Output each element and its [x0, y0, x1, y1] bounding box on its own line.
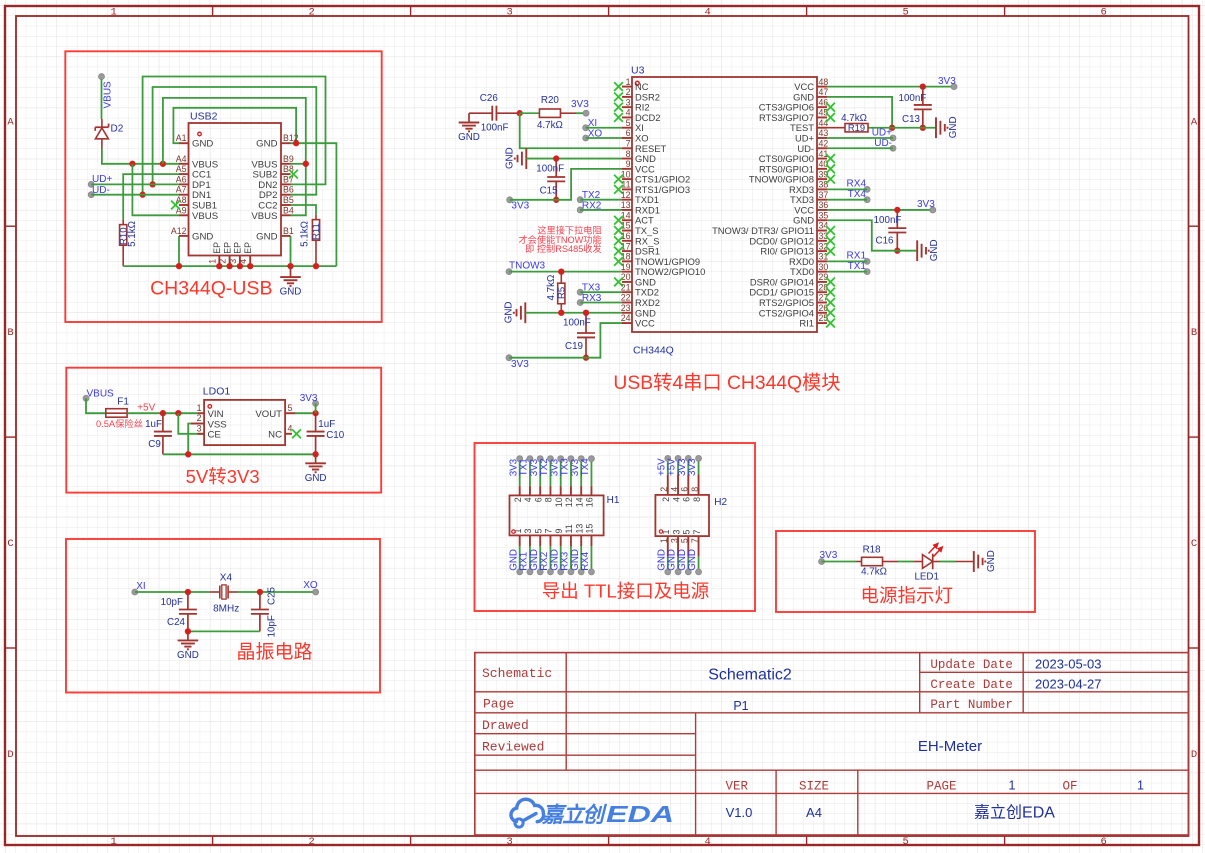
svg-text:Update Date: Update Date	[930, 658, 1013, 672]
pin B4 VBUS	[281, 214, 291, 216]
pin 8 GND	[622, 158, 632, 160]
wire R20 junction to RESET pin 7	[520, 113, 622, 148]
svg-text:1uF: 1uF	[318, 419, 335, 430]
section box 5V-3V3	[66, 368, 381, 493]
svg-text:C: C	[1191, 538, 1197, 550]
net label 3V3 at R20	[583, 110, 589, 116]
svg-text:C10: C10	[326, 430, 345, 441]
svg-text:LED1: LED1	[914, 572, 939, 583]
net label 3V3 at LED	[819, 559, 825, 565]
svg-text:D2: D2	[111, 124, 124, 135]
svg-text:RI0/ GPIO13: RI0/ GPIO13	[760, 246, 814, 257]
ground GND of USB section	[290, 266, 292, 277]
capacitor C15 100nF	[555, 159, 557, 177]
wire C15 to VCC pin 9	[556, 169, 622, 200]
pin 11 RTS1/GPIO3	[622, 188, 632, 190]
wire VCC pin 24 to 3V3	[509, 323, 622, 358]
pin 4 DCD2	[622, 116, 632, 118]
svg-text:VCC: VCC	[794, 204, 814, 215]
svg-text:+5V: +5V	[137, 402, 155, 413]
pin 31 RXD0	[817, 260, 827, 262]
net label VBUS	[83, 395, 89, 401]
pin 2 of H1	[519, 486, 521, 495]
svg-text:即 控制RS485收发: 即 控制RS485收发	[525, 243, 602, 254]
section box CH344Q-USB	[65, 51, 381, 322]
svg-text:TXD3: TXD3	[790, 194, 814, 205]
wire VCC pin 48 to 3V3	[827, 86, 954, 88]
pin 27 RTS2/GPIO5	[817, 301, 827, 303]
svg-text:NC: NC	[268, 430, 282, 441]
svg-text:GND: GND	[793, 91, 814, 102]
ground GND for C26	[468, 113, 470, 122]
pin B1 GND	[281, 235, 291, 237]
resistor R18 4.7k	[857, 561, 862, 563]
svg-text:24: 24	[621, 313, 631, 323]
net label 3V3 at pin 36	[930, 207, 936, 213]
svg-text:4: 4	[704, 7, 710, 19]
pin B9 VBUS	[281, 163, 291, 165]
svg-text:嘉立创: 嘉立创	[541, 803, 607, 827]
svg-text:3: 3	[626, 97, 631, 107]
svg-text:VCC: VCC	[635, 318, 655, 329]
svg-text:1: 1	[1137, 778, 1144, 792]
pin 9 of H1	[560, 535, 562, 546]
svg-text:GND: GND	[793, 215, 814, 226]
svg-text:VBUS: VBUS	[192, 211, 218, 222]
capacitor C25 10pF	[259, 592, 261, 610]
svg-text:CTS2/GPIO4: CTS2/GPIO4	[759, 307, 814, 318]
svg-text:TNOW0/GPIO8: TNOW0/GPIO8	[749, 174, 814, 185]
svg-text:21: 21	[621, 282, 631, 292]
pin 15 of H1	[590, 535, 592, 546]
svg-text:GND: GND	[256, 139, 277, 150]
ground GND at C16	[916, 240, 918, 261]
connector H1 body	[510, 495, 604, 535]
svg-text:C19: C19	[565, 341, 583, 352]
wire GND to pin 23	[525, 312, 622, 314]
svg-text:6: 6	[626, 128, 631, 138]
wire nested loop DP1-DP2	[153, 87, 317, 195]
svg-text:100nF: 100nF	[481, 123, 509, 134]
pin 33 DCD0/ GPIO12	[817, 240, 827, 242]
svg-text:Schematic: Schematic	[482, 666, 552, 681]
pin 13 of H1	[580, 535, 582, 546]
net label RX2	[577, 207, 583, 213]
svg-text:XI: XI	[136, 581, 145, 592]
svg-text:2: 2	[626, 87, 631, 97]
pin 17 DSR1	[622, 250, 632, 252]
pin 6 of H1	[539, 486, 541, 495]
pin 2 DSR2	[622, 96, 632, 98]
pin 1 marker H1	[512, 530, 515, 533]
svg-text:R11: R11	[311, 223, 322, 240]
svg-text:8: 8	[626, 149, 631, 159]
pin 20 GND	[622, 281, 632, 283]
pin A12 GND	[179, 235, 189, 237]
svg-text:31: 31	[819, 252, 829, 262]
svg-text:A5: A5	[176, 164, 187, 174]
svg-text:B9: B9	[283, 154, 294, 164]
svg-text:3V3: 3V3	[300, 393, 318, 404]
svg-text:A6: A6	[176, 174, 187, 184]
svg-text:A: A	[7, 116, 14, 128]
svg-text:DCD0/ GPIO12: DCD0/ GPIO12	[749, 235, 814, 246]
pin 6 XO	[622, 137, 632, 139]
pin 7 of H1	[549, 535, 551, 546]
net label 3V3 at C15	[507, 197, 513, 203]
net label TX2	[577, 197, 583, 203]
pin 10 CTS1/GPIO2	[622, 178, 632, 180]
pin B8 SUB2	[281, 173, 291, 175]
svg-text:4.7kΩ: 4.7kΩ	[546, 275, 557, 301]
svg-text:12: 12	[621, 190, 631, 200]
svg-text:11: 11	[564, 524, 574, 533]
wire VCC pin 36 to 3V3	[827, 209, 933, 211]
svg-text:8: 8	[544, 497, 554, 502]
pin 3 of H2	[677, 536, 679, 557]
svg-text:B5: B5	[283, 195, 294, 205]
pin B7 DN2	[281, 183, 291, 185]
svg-text:F1: F1	[117, 396, 129, 407]
svg-text:VCC: VCC	[794, 81, 814, 92]
svg-text:GND: GND	[177, 650, 199, 661]
wire CC1 to R10	[123, 174, 179, 219]
svg-text:XO: XO	[303, 580, 318, 591]
net label 3V3 at C19	[506, 355, 512, 361]
svg-text:RI1: RI1	[799, 318, 814, 329]
capacitor C26 100nF	[469, 112, 492, 114]
svg-text:3: 3	[197, 424, 202, 434]
svg-text:11: 11	[621, 180, 630, 190]
pin 13 RXD1	[622, 209, 632, 211]
svg-text:1uF: 1uF	[145, 419, 162, 430]
svg-text:3V3: 3V3	[938, 76, 956, 87]
svg-text:C15: C15	[540, 186, 559, 197]
capacitor C16 100nF	[896, 210, 898, 228]
svg-text:C9: C9	[148, 439, 161, 450]
net label RX3	[577, 300, 583, 306]
svg-text:B6: B6	[283, 185, 294, 195]
section box power LED	[776, 531, 1035, 612]
svg-text:TNOW3: TNOW3	[509, 260, 546, 271]
svg-text:5: 5	[902, 836, 908, 848]
svg-text:22: 22	[621, 293, 631, 303]
svg-text:C16: C16	[876, 236, 895, 247]
svg-text:TXD0: TXD0	[790, 266, 814, 277]
pin 24 VCC	[622, 322, 632, 324]
svg-text:GND: GND	[192, 139, 213, 150]
svg-text:GND: GND	[280, 287, 302, 298]
svg-text:5: 5	[902, 7, 908, 19]
svg-text:RTS2/GPIO5: RTS2/GPIO5	[759, 297, 814, 308]
svg-text:GND: GND	[305, 473, 327, 484]
pin 48 VCC	[817, 86, 827, 88]
net label UD-	[88, 192, 94, 198]
wire B9 VBUS to B4	[291, 163, 306, 165]
title block table	[475, 653, 1189, 835]
svg-text:RXD3: RXD3	[789, 184, 814, 195]
svg-text:38: 38	[819, 180, 829, 190]
pin 39 TNOW0/GPIO8	[817, 178, 827, 180]
svg-text:B: B	[7, 327, 13, 339]
wire LED1 to GND	[940, 561, 955, 563]
svg-text:CE: CE	[208, 430, 221, 441]
svg-text:6: 6	[1100, 836, 1106, 848]
pin 38 RXD3	[817, 188, 827, 190]
svg-text:C25: C25	[267, 586, 278, 605]
svg-text:A: A	[1191, 116, 1198, 128]
svg-text:6: 6	[682, 497, 692, 502]
svg-text:Reviewed: Reviewed	[482, 740, 544, 755]
svg-text:导出 TTL接口及电源: 导出 TTL接口及电源	[542, 581, 710, 602]
svg-text:3: 3	[669, 538, 679, 543]
wire CC2 to R11	[291, 205, 317, 214]
svg-text:100nF: 100nF	[536, 163, 564, 174]
svg-text:6: 6	[1100, 7, 1106, 19]
svg-text:23: 23	[621, 303, 631, 313]
net label XO	[313, 589, 319, 595]
pin 5 of H2	[687, 536, 689, 557]
pin 10 of H1	[560, 486, 562, 495]
svg-text:42: 42	[819, 138, 829, 148]
wire nested loop DN1-DN2	[143, 77, 326, 195]
pin 16 RX_S	[622, 240, 632, 242]
svg-text:B1: B1	[283, 226, 294, 236]
svg-text:1: 1	[626, 77, 631, 87]
pin 1 marker H2	[659, 530, 662, 533]
svg-text:3V3: 3V3	[571, 99, 589, 110]
svg-text:3: 3	[228, 259, 238, 264]
svg-text:TX4: TX4	[580, 458, 591, 477]
svg-text:4: 4	[288, 424, 293, 434]
svg-text:Schematic2: Schematic2	[708, 667, 792, 684]
svg-text:5: 5	[682, 530, 692, 535]
svg-text:TX1: TX1	[848, 261, 867, 272]
wire VBUS to F1	[86, 398, 106, 413]
svg-text:EP: EP	[212, 242, 222, 254]
svg-text:UD-: UD-	[874, 138, 892, 149]
pin 5 XI	[622, 127, 632, 129]
wire X4 to XO	[238, 591, 316, 593]
pin 3 of H1	[529, 535, 531, 546]
svg-text:EP: EP	[222, 242, 232, 254]
pin 22 RXD2	[622, 301, 632, 303]
svg-text:GND: GND	[505, 147, 516, 169]
pin 30 TXD0	[817, 271, 827, 273]
net label TX3	[577, 289, 583, 295]
wire UD+ to pin A6	[91, 183, 179, 185]
wire bottom GND bus	[123, 265, 336, 267]
pin A1 GND	[179, 142, 189, 144]
svg-text:4: 4	[626, 108, 631, 118]
svg-text:C13: C13	[902, 114, 921, 125]
wire GND to pin 8	[526, 158, 622, 160]
svg-text:A7: A7	[176, 185, 187, 195]
svg-text:6: 6	[533, 497, 543, 502]
svg-text:3: 3	[506, 836, 512, 848]
svg-text:USB2: USB2	[190, 111, 218, 123]
net label UD+	[88, 181, 94, 187]
pin 42 UD-	[817, 147, 827, 149]
pin 12 of H1	[570, 486, 572, 495]
pin 1 VIN	[197, 412, 204, 414]
svg-text:UD-: UD-	[797, 143, 814, 154]
pin 4 of H1	[529, 486, 531, 495]
pin 7 of H2	[698, 536, 700, 557]
zener diode D2	[101, 119, 103, 127]
svg-text:3: 3	[671, 530, 681, 535]
wire VBUS branch to A9	[132, 164, 179, 216]
svg-text:6: 6	[680, 487, 690, 492]
svg-text:10: 10	[554, 497, 564, 507]
svg-text:4: 4	[671, 497, 681, 502]
svg-text:3V3: 3V3	[820, 550, 838, 561]
svg-text:GND: GND	[929, 239, 940, 261]
pin 2 VSS	[191, 423, 204, 425]
svg-text:2: 2	[513, 497, 523, 502]
logo JLCEDA cloud	[511, 799, 544, 827]
svg-text:Create Date: Create Date	[930, 678, 1013, 692]
svg-text:GND: GND	[192, 231, 213, 242]
svg-text:C26: C26	[480, 93, 499, 104]
svg-text:2: 2	[197, 413, 202, 423]
svg-text:16: 16	[585, 497, 595, 507]
svg-text:100nF: 100nF	[874, 215, 902, 226]
pin 14 ACT	[622, 219, 632, 221]
regulator LDO1 body	[204, 400, 285, 445]
capacitor C10 1uF	[315, 413, 317, 431]
svg-text:DCD1/ GPIO15: DCD1/ GPIO15	[749, 287, 814, 298]
svg-text:GND: GND	[256, 231, 277, 242]
svg-text:CH344Q-USB: CH344Q-USB	[150, 278, 272, 300]
wire F1 to VIN	[127, 412, 197, 414]
pin 40 RTS0/GPIO1	[817, 168, 827, 170]
net label XI	[132, 589, 138, 595]
svg-text:Page: Page	[483, 697, 514, 712]
svg-text:VOUT: VOUT	[255, 409, 282, 420]
svg-text:4.7kΩ: 4.7kΩ	[537, 120, 563, 131]
svg-text:R5: R5	[557, 287, 568, 299]
pin 3 CE	[197, 433, 204, 435]
pin A8 no-connect X	[171, 201, 180, 210]
crystal X4 8MHz	[210, 591, 220, 593]
pin 36 VCC	[817, 209, 827, 211]
wire bottom bus of LDO section	[163, 453, 316, 455]
svg-text:2: 2	[661, 497, 671, 502]
svg-text:2: 2	[659, 487, 669, 492]
svg-text:U3: U3	[631, 65, 645, 77]
wire B12 GND to bus	[291, 143, 337, 266]
svg-text:37: 37	[819, 190, 829, 200]
svg-text:TX4: TX4	[848, 189, 867, 200]
svg-text:X4: X4	[220, 573, 233, 584]
svg-text:SIZE: SIZE	[799, 779, 829, 793]
svg-text:EP: EP	[243, 242, 253, 254]
svg-text:TEST: TEST	[790, 122, 814, 133]
svg-text:1: 1	[207, 259, 217, 264]
svg-text:VBUS: VBUS	[87, 388, 115, 399]
wire VBUS net to D2	[99, 74, 105, 80]
svg-text:2023-05-03: 2023-05-03	[1035, 657, 1102, 672]
node C26-R20 junction	[517, 110, 523, 116]
ground GND at LED	[973, 551, 975, 572]
wire VSS to bus	[188, 424, 191, 455]
pin 9 VCC	[622, 168, 632, 170]
svg-text:OF: OF	[1062, 779, 1077, 793]
resistor R11 5.1k	[315, 214, 317, 219]
pin 41 CTS0/GPIO0	[817, 158, 827, 160]
node A12 to bus	[178, 236, 180, 266]
svg-text:5: 5	[533, 529, 543, 534]
pin 4 of H2	[677, 474, 679, 495]
svg-text:电源指示灯: 电源指示灯	[860, 585, 953, 606]
svg-text:Part Number: Part Number	[930, 698, 1013, 712]
pin 29 DSR0/ GPIO14	[817, 281, 827, 283]
svg-text:5: 5	[626, 118, 631, 128]
svg-text:12: 12	[564, 497, 574, 507]
pin 28 DCD1/ GPIO15	[817, 291, 827, 293]
svg-text:2: 2	[308, 7, 314, 19]
ground GND at pin 23	[524, 302, 526, 323]
wire pin 47 GND down to C13	[827, 97, 892, 128]
capacitor C19 100nF	[585, 313, 587, 333]
wire XI to X4	[135, 591, 210, 593]
svg-text:VBUS: VBUS	[102, 81, 113, 109]
svg-text:47: 47	[819, 87, 829, 97]
net label UD+ at pin 43	[890, 135, 896, 141]
svg-text:EH-Meter: EH-Meter	[918, 738, 982, 755]
svg-text:R18: R18	[863, 545, 882, 556]
pin 7 RESET	[622, 147, 632, 149]
svg-text:A1: A1	[176, 133, 187, 143]
svg-text:CH344Q: CH344Q	[633, 345, 674, 357]
svg-text:1: 1	[110, 836, 116, 848]
svg-text:7: 7	[626, 138, 631, 148]
pin 5 of H1	[539, 535, 541, 546]
svg-text:EP: EP	[233, 242, 243, 254]
svg-text:R19: R19	[848, 122, 865, 133]
svg-text:UD+: UD+	[795, 133, 815, 144]
svg-text:1: 1	[110, 7, 116, 19]
capacitor C13 100nF	[922, 87, 924, 105]
svg-text:GND: GND	[948, 116, 959, 138]
svg-text:1: 1	[659, 538, 669, 543]
svg-text:3: 3	[523, 529, 533, 534]
svg-text:100nF: 100nF	[899, 93, 927, 104]
svg-text:B12: B12	[283, 133, 299, 143]
svg-text:P1: P1	[733, 699, 748, 713]
svg-text:5.1kΩ: 5.1kΩ	[127, 221, 138, 247]
svg-text:13: 13	[574, 524, 584, 534]
svg-text:36: 36	[819, 200, 829, 210]
capacitor C9 1uF	[162, 413, 164, 431]
svg-text:35: 35	[819, 210, 829, 220]
wire R18 to LED1	[898, 561, 914, 563]
net label XO	[583, 135, 589, 141]
pin B8 no-connect X	[289, 170, 298, 179]
pin 43 UD+	[817, 137, 827, 139]
pin 21 TXD2	[622, 291, 632, 293]
svg-text:10pF: 10pF	[161, 597, 183, 608]
svg-text:CTS0/GPIO0: CTS0/GPIO0	[759, 153, 814, 164]
pin 32 RI0/ GPIO13	[817, 250, 827, 252]
net label RX1 at pin 31	[864, 258, 870, 264]
svg-text:7: 7	[544, 529, 554, 534]
wire UD- to pin A7	[91, 194, 179, 196]
net label RX4 at pin 38	[864, 186, 870, 192]
fuse F1 0.5A	[106, 409, 127, 418]
svg-text:4.7kΩ: 4.7kΩ	[861, 567, 887, 578]
